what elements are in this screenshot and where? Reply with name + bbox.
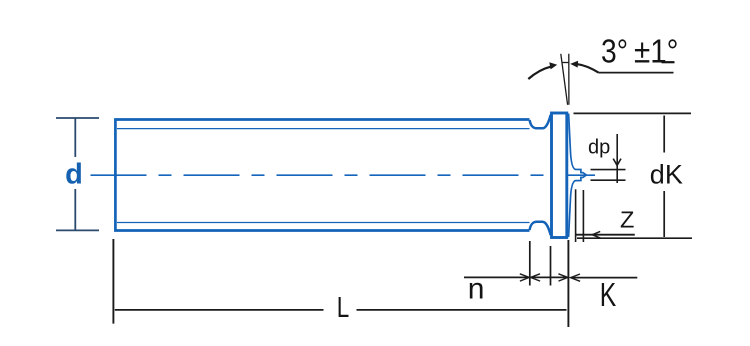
svg-text:dp: dp (588, 136, 610, 158)
middle dimension line (531, 276, 567, 278)
middle arrowhead pointing left (531, 274, 541, 281)
dp arrow shaft (616, 134, 618, 183)
extension line flange right (long) (567, 240, 569, 327)
K dimension line (571, 277, 638, 279)
taper line left (3 deg) (561, 54, 568, 105)
svg-text:n: n (468, 273, 485, 306)
n arrowhead right (520, 274, 529, 281)
dp extension line lower (591, 179, 626, 181)
taper line right (vertical) (568, 54, 570, 105)
extension line flange left (550, 246, 552, 286)
taper crossbar (562, 62, 569, 64)
extension line cylinder end (529, 241, 531, 286)
center line (axis) (91, 174, 596, 176)
leader arc left with arrow (528, 66, 551, 79)
Z extension line A (575, 189, 577, 242)
svg-text:Z: Z (620, 207, 634, 233)
dimension d: bottom tick (56, 229, 99, 231)
svg-text:3°: 3° (601, 32, 628, 69)
flange (552, 113, 567, 238)
groove top profile (530, 115, 551, 129)
thread inner line bottom (117, 222, 530, 224)
weld tip bottom profile (569, 175, 587, 237)
Z dimension line (575, 234, 635, 236)
dimension d: line upper (74, 118, 76, 157)
L extension line left (112, 239, 114, 324)
dimension d: line lower (74, 189, 76, 230)
middle arrowhead pointing right (558, 274, 567, 281)
K arrowhead left (571, 274, 581, 281)
stud body (cylinder outline) (115, 120, 529, 231)
svg-text:K: K (600, 276, 617, 313)
weld tip top profile (569, 114, 587, 175)
dK top extension (574, 112, 692, 114)
thread inner line top (117, 128, 530, 130)
svg-text:d: d (65, 158, 83, 190)
L dimension line left part (115, 309, 324, 311)
dimension d: top tick (56, 117, 99, 119)
dK dimension line upper (663, 116, 665, 153)
svg-text:dK: dK (650, 160, 683, 190)
dp extension line upper (591, 169, 626, 171)
groove bottom profile (530, 222, 551, 236)
n dimension line (464, 276, 529, 278)
dp arrowhead down (613, 159, 621, 166)
dK bottom extension (577, 237, 692, 239)
svg-text:L: L (337, 292, 350, 324)
leader underline (599, 72, 674, 74)
foot of digit 1 (662, 61, 675, 63)
L dimension line right part (357, 309, 567, 311)
svg-text:±1°: ±1° (634, 32, 679, 69)
dK dimension line lower (663, 191, 665, 237)
Z arrowhead left (592, 231, 600, 238)
Z extension line B (582, 190, 584, 242)
leader arc right with arrow (578, 64, 599, 72)
